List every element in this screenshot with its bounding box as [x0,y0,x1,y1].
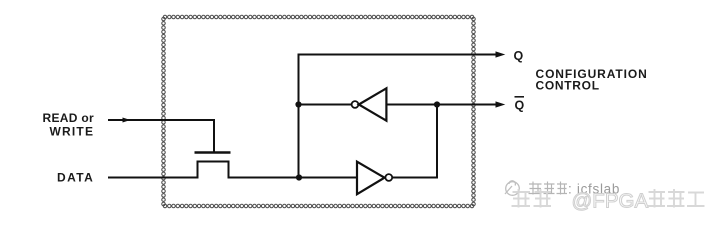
label CONFIGURATION CONTROL [536,67,648,93]
svg-text:CONTROL: CONTROL [536,78,600,92]
label Q-bar [515,97,525,113]
op-amp U2: bottom inverter (points right, bubble at output) [357,162,392,195]
wire inverter U1 input to node QB [386,104,437,106]
op-amp U1: top inverter (points left, bubble at output) [352,88,387,120]
node A: junction left vertical / U1 output line [295,101,301,107]
arrowhead on READ/WRITE wire [123,118,131,123]
wire DATA with transistor Q1 channel bump [108,162,357,178]
svg-text:Q: Q [515,99,525,113]
arrowhead QB [496,101,506,107]
wire inverter U2 output to right vertical [392,177,438,179]
node C: junction DATA line / left vertical [296,174,302,180]
node B: junction right vertical / QB line [434,101,440,107]
wire top to Q output [298,54,497,56]
svg-text:Q: Q [514,49,524,63]
watermark text: zhihu FPGA (light embossed) [512,189,705,213]
wire node Q to inverter U1 output bubble [299,104,352,106]
svg-text:DATA: DATA [57,171,94,185]
transistor Q1 gate bar [195,151,231,153]
wire right vertical (node QB down to U2 output) [436,105,438,179]
svg-text:READ or: READ or [43,111,94,125]
wire READ/WRITE to gate [108,120,214,152]
arrowhead Q [496,51,506,57]
svg-text:WRITE: WRITE [50,125,95,139]
cell boundary (dotted box) [162,15,476,208]
watermark logo (wechat) [505,181,519,196]
label READ or WRITE [43,111,95,139]
watermark text: weixin id (CJK approx) [529,182,568,195]
wire node QB to QB output [437,104,497,106]
wire left vertical (node Q) [298,55,300,178]
svg-text:@FPGA: @FPGA [572,190,649,213]
